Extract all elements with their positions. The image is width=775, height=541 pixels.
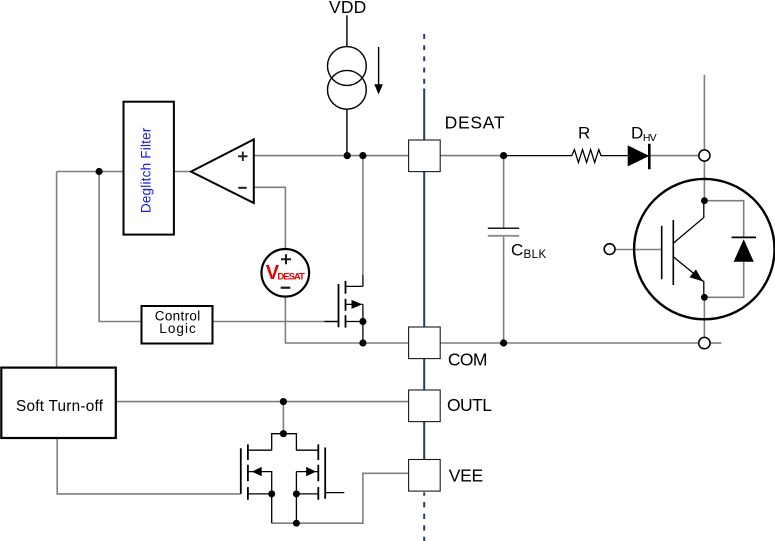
svg-text:VDD: VDD [329,0,366,17]
svg-text:DESAT: DESAT [445,113,505,133]
svg-text:Deglitch Filter: Deglitch Filter [138,127,153,213]
svg-text:R: R [578,124,590,143]
svg-text:HV: HV [643,132,657,144]
svg-text:DESAT: DESAT [277,271,305,282]
svg-text:C: C [511,240,523,259]
svg-text:OUTL: OUTL [447,395,492,415]
svg-text:Logic: Logic [159,321,196,336]
svg-text:BLK: BLK [524,249,547,261]
svg-text:D: D [631,124,643,143]
svg-text:COM: COM [448,349,488,369]
svg-text:Soft Turn-off: Soft Turn-off [16,398,104,415]
svg-text:VEE: VEE [449,465,483,485]
